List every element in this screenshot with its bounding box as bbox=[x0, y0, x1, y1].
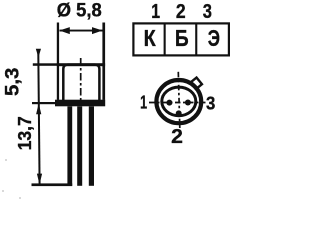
extension line top (cap top) bbox=[33, 63, 57, 66]
can centerline bbox=[80, 58, 82, 100]
svg-text:1: 1 bbox=[140, 93, 147, 113]
pin dot 1 bbox=[166, 100, 172, 106]
pin table divider 2 bbox=[195, 23, 197, 55]
svg-text:5,3: 5,3 bbox=[2, 68, 23, 97]
key tab bbox=[190, 78, 202, 90]
dimension arrow Ø5,8 bbox=[59, 27, 102, 34]
outer circle bbox=[156, 80, 201, 123]
extension line right (can right edge) bbox=[102, 23, 105, 100]
svg-text:Б: Б bbox=[175, 25, 189, 51]
pin dot 2 bbox=[176, 110, 182, 116]
flange bbox=[55, 100, 105, 107]
pin dot 3 bbox=[185, 100, 191, 106]
arrowhead down at bottom ext bbox=[37, 174, 42, 185]
extension line left (can left edge) bbox=[57, 23, 59, 100]
svg-text:К: К bbox=[144, 25, 157, 51]
svg-text:2: 2 bbox=[176, 0, 186, 23]
interior mask bbox=[159, 82, 200, 121]
svg-text:Э: Э bbox=[208, 25, 220, 51]
svg-text:2: 2 bbox=[171, 126, 183, 148]
lead 2 bbox=[77, 106, 82, 185]
lead 1 bbox=[67, 106, 72, 185]
extension line mid (flange top) bbox=[32, 102, 55, 104]
lead 3 bbox=[89, 106, 94, 185]
pin table outline bbox=[133, 23, 229, 55]
arrowhead up at mid ext bbox=[36, 103, 41, 114]
svg-text:Ø 5,8: Ø 5,8 bbox=[57, 0, 102, 21]
svg-text:13,7: 13,7 bbox=[15, 116, 35, 150]
scan specks bbox=[2, 159, 21, 199]
arrowhead down at top ext bbox=[36, 49, 41, 58]
can cap (rounded) bbox=[63, 65, 99, 100]
svg-text:1: 1 bbox=[151, 0, 160, 23]
vertical centerline bbox=[178, 72, 180, 128]
pin table divider 1 bbox=[164, 23, 166, 55]
vertical dimension line (5,3 / 13,7) bbox=[38, 53, 39, 185]
svg-text:3: 3 bbox=[206, 93, 215, 113]
horizontal centerline bbox=[149, 102, 206, 104]
inner circle bbox=[162, 87, 196, 116]
can top edge bbox=[57, 63, 105, 66]
extension line bottom (lead ends) bbox=[32, 183, 73, 186]
svg-text:3: 3 bbox=[203, 0, 212, 23]
